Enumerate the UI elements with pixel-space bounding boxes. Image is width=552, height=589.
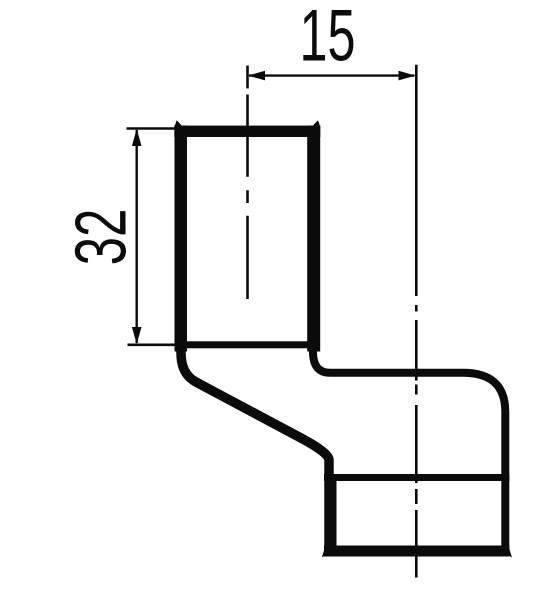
svg-text:32: 32 [61, 209, 142, 266]
svg-text:15: 15 [299, 0, 355, 77]
